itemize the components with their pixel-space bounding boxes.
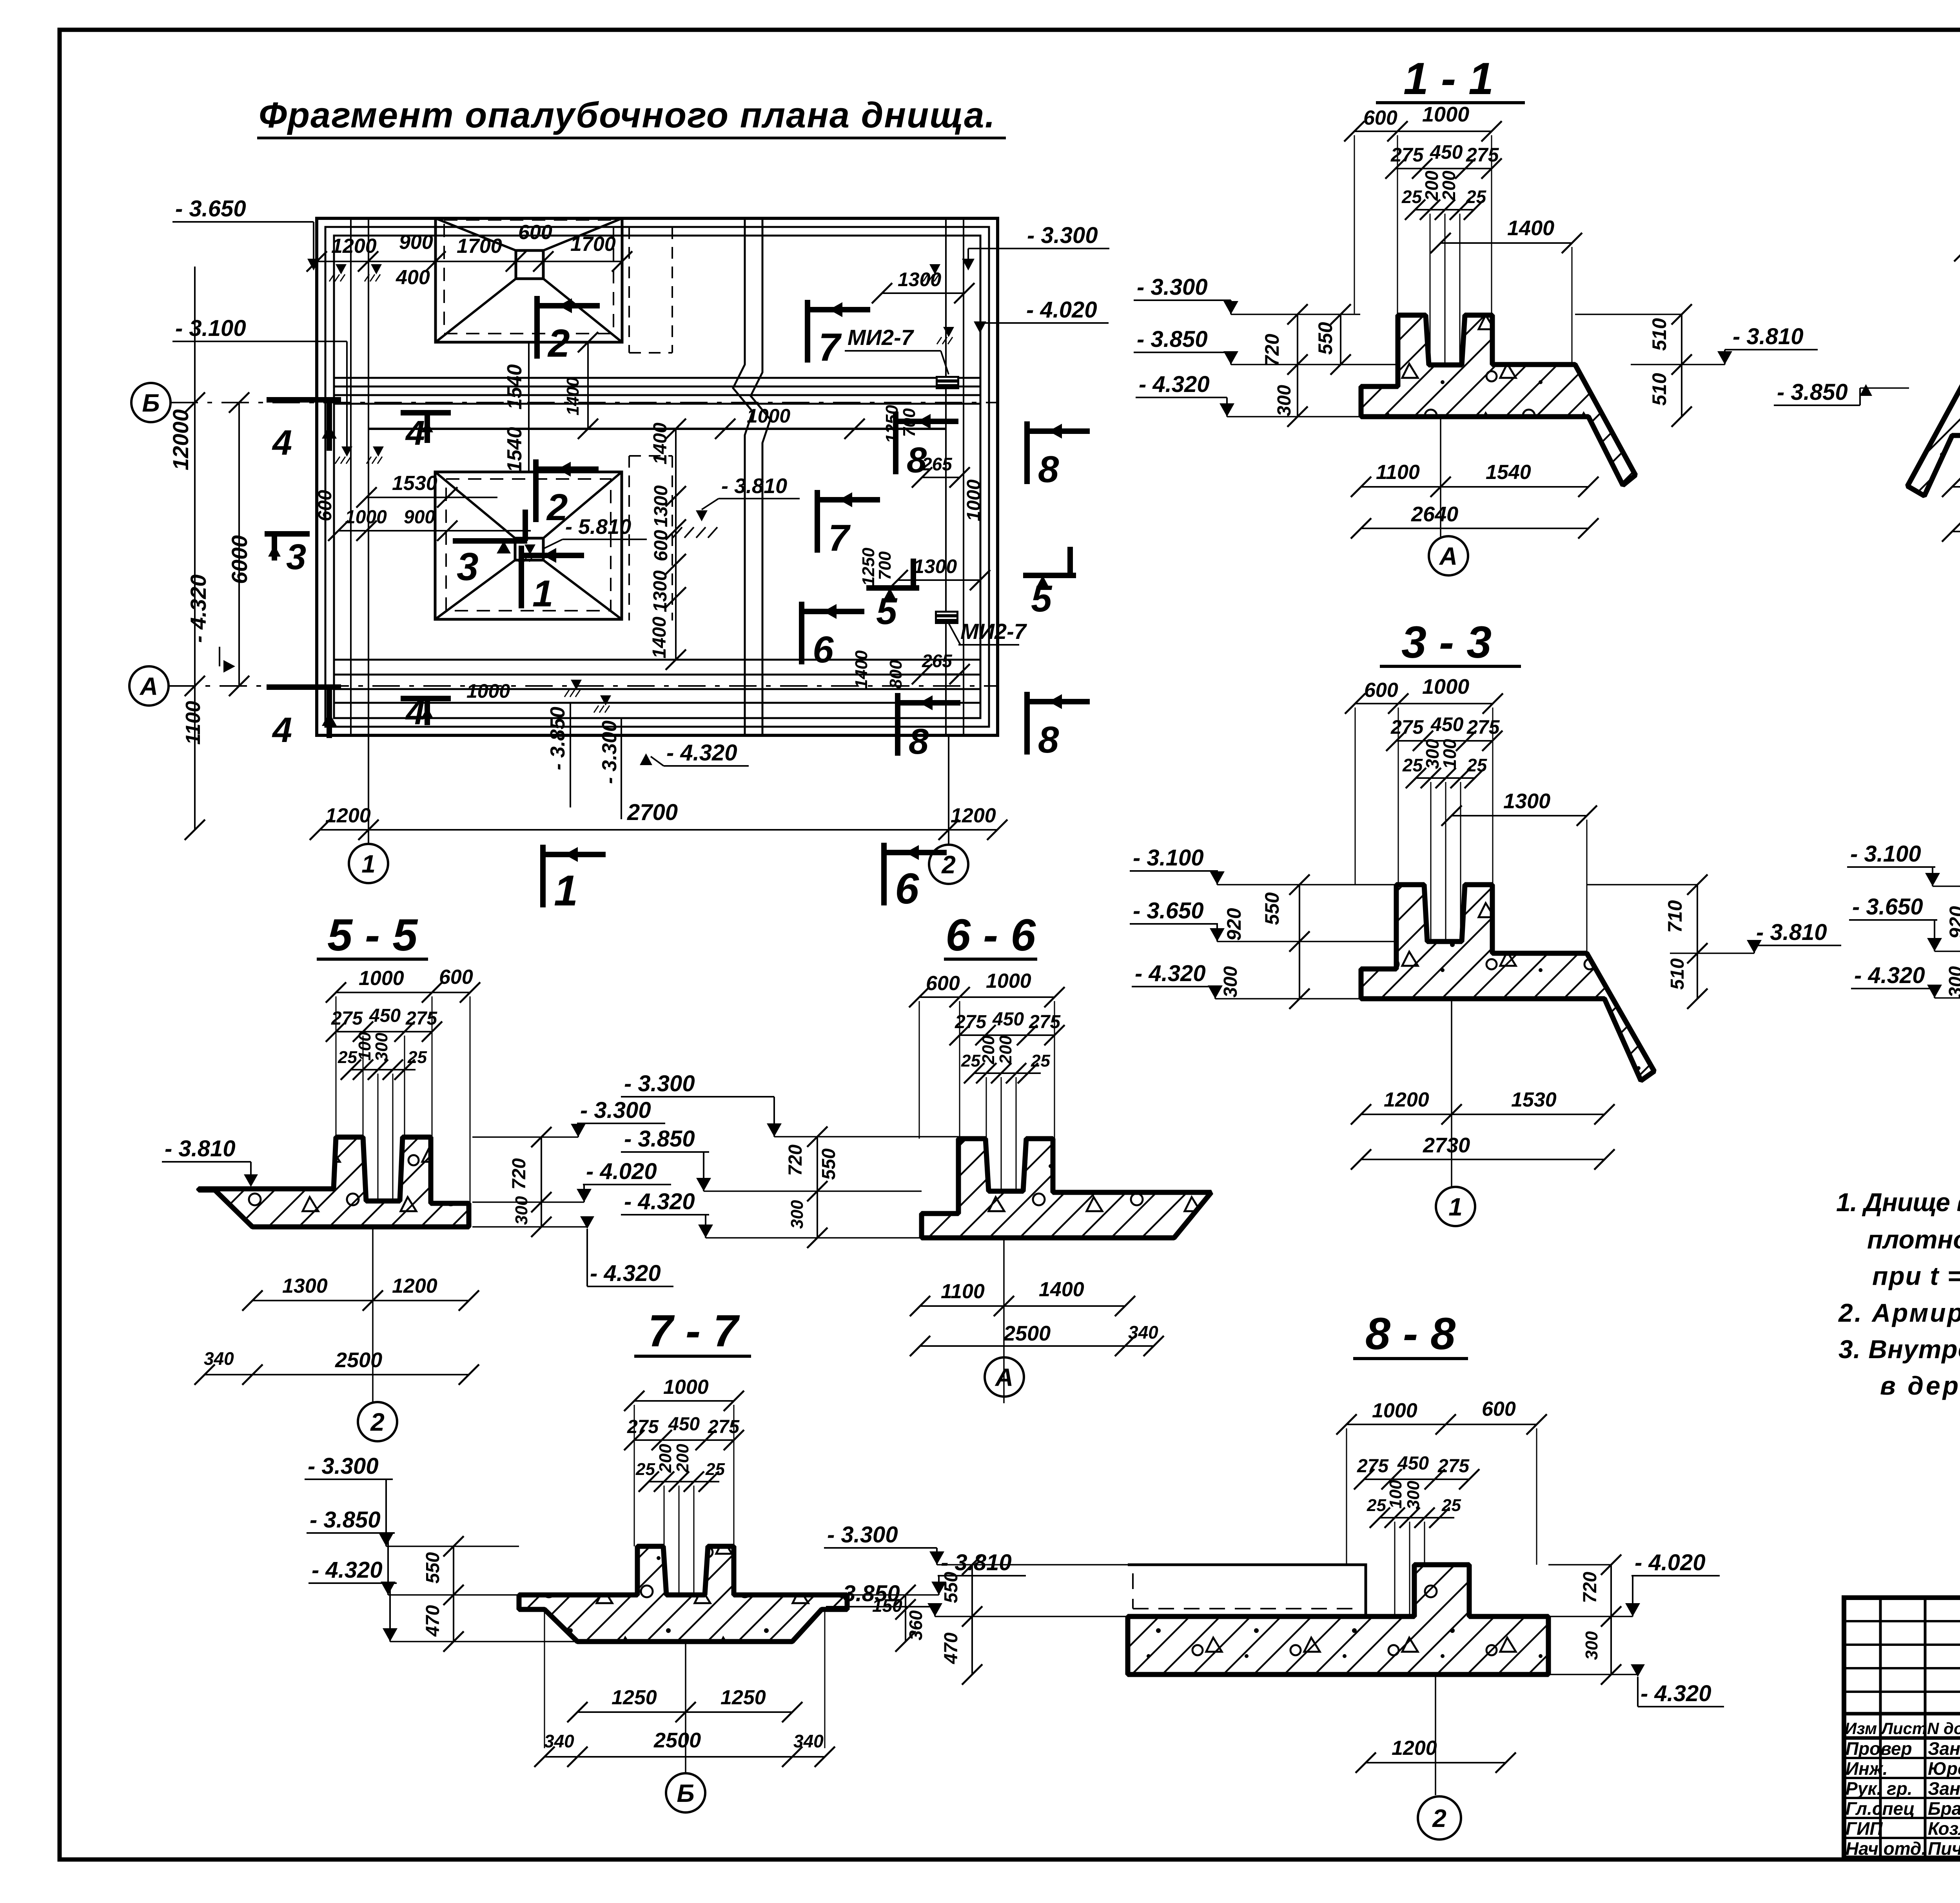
svg-text:700: 700 [875,551,895,580]
svg-text:450: 450 [1430,713,1464,735]
svg-text:920: 920 [1223,908,1245,941]
svg-text:Пичахчи: Пичахчи [1928,1838,1960,1859]
flags outside right [1024,421,1030,484]
svg-text:470: 470 [423,1605,443,1637]
svg-text:1000: 1000 [1422,103,1469,126]
2-2 bottom dims [1952,486,1960,488]
svg-text:25: 25 [1031,1051,1050,1070]
svg-text:400: 400 [396,266,430,289]
svg-text:275: 275 [405,1008,437,1029]
svg-text:550: 550 [423,1552,443,1584]
svg-text:- 3.850: - 3.850 [829,1581,900,1606]
svg-text:600: 600 [518,221,552,244]
svg-text:- 3.100: - 3.100 [1850,841,1921,867]
svg-text:А: А [995,1363,1013,1391]
section flags on plan [534,296,540,359]
plan inner wall lines [350,218,352,735]
svg-text:- 4.320: - 4.320 [666,740,737,766]
7-7 concrete body [519,1546,847,1642]
svg-text:Изм: Изм [1845,1719,1877,1738]
svg-text:- 3.850: - 3.850 [1137,327,1208,352]
svg-text:Гл.спец: Гл.спец [1846,1798,1915,1819]
svg-text:2700: 2700 [627,800,678,825]
svg-text:Рук. гр.: Рук. гр. [1846,1778,1913,1799]
svg-text:8: 8 [1038,719,1059,761]
1-1 extension lines [1354,135,1355,314]
axis circle Б [131,383,171,422]
6-6 bottom dims [920,1305,1125,1307]
svg-text:1000: 1000 [466,680,510,702]
svg-text:- 3.850: - 3.850 [546,707,569,770]
svg-text:3 - 3: 3 - 3 [1401,617,1492,668]
svg-text:800: 800 [886,660,906,689]
svg-text:550: 550 [818,1148,839,1180]
svg-text:- 3.650: - 3.650 [175,196,246,221]
svg-text:340: 340 [544,1731,574,1751]
svg-text:275: 275 [708,1417,740,1437]
svg-text:- 4.320: - 4.320 [1139,372,1210,397]
svg-text:1: 1 [554,867,578,915]
5-5 top dims [336,992,470,993]
svg-text:в деревянной опалубке.: в деревянной опалубке. [1880,1371,1960,1400]
svg-text:710: 710 [1664,900,1686,933]
svg-text:1300: 1300 [651,485,671,527]
title block [1844,1598,1960,1858]
plan break lines [733,218,753,735]
svg-text:920: 920 [1945,906,1960,939]
svg-text:5: 5 [1031,578,1053,620]
svg-text:100: 100 [355,1032,374,1061]
svg-text:340: 340 [204,1348,234,1369]
svg-text:8: 8 [909,722,929,762]
svg-text:1530: 1530 [1511,1088,1557,1111]
svg-text:1100: 1100 [182,701,205,745]
svg-text:450: 450 [992,1009,1024,1030]
svg-text:- 3.100: - 3.100 [175,316,246,341]
svg-text:510: 510 [1648,318,1670,351]
svg-text:25: 25 [1402,755,1423,775]
svg-text:600: 600 [651,530,671,561]
svg-text:1: 1 [1448,1193,1463,1221]
svg-text:900: 900 [399,231,433,254]
svg-text:1200: 1200 [1384,1088,1429,1111]
svg-text:2: 2 [547,321,570,365]
7-7 axis circle [666,1773,705,1812]
svg-text:2640: 2640 [1411,503,1458,526]
svg-text:N докумен.: N докумен. [1927,1719,1960,1738]
svg-text:12000: 12000 [168,409,193,470]
svg-text:Нач отд.: Нач отд. [1846,1838,1926,1859]
svg-text:1300: 1300 [650,570,671,612]
8-8 bottom dim [1366,1762,1506,1763]
svg-text:3: 3 [286,537,306,577]
svg-text:1400: 1400 [650,423,671,464]
svg-text:2500: 2500 [335,1348,382,1372]
svg-text:1000: 1000 [1372,1399,1417,1422]
svg-text:25: 25 [1466,755,1488,775]
svg-text:300: 300 [1945,966,1960,998]
7-7 bottom dims [577,1711,792,1713]
svg-text:1300: 1300 [913,555,957,577]
svg-text:А: А [1439,542,1457,570]
svg-text:7: 7 [818,325,842,369]
plan bottom band [334,659,980,661]
svg-text:600: 600 [439,966,473,989]
svg-text:5: 5 [876,590,898,632]
upper hopper pit [436,218,622,342]
dashed formwork rects right of hoppers [628,227,630,353]
svg-text:450: 450 [1430,141,1463,163]
8-8 concrete body [1128,1565,1548,1674]
svg-text:1: 1 [532,573,553,615]
svg-text:- 3.300: - 3.300 [580,1098,651,1123]
svg-text:200: 200 [673,1444,692,1473]
svg-text:550: 550 [1314,322,1336,355]
lower hopper pit [435,472,622,619]
svg-text:360: 360 [906,1610,926,1640]
svg-text:1000: 1000 [747,405,790,427]
flag 3 lower hopper [453,538,527,544]
svg-text:1. Днище выполнять из бетона: 1. Днище выполнять из бетона по прочност… [1836,1188,1960,1217]
svg-text:1400: 1400 [1507,216,1554,240]
svg-text:1100: 1100 [1376,461,1420,484]
svg-text:1540: 1540 [503,427,526,472]
mid 4 flags [401,410,451,415]
svg-text:1: 1 [361,850,376,878]
svg-text:1400: 1400 [563,377,583,415]
right vertical dim chain 1400 1300 600 1300 1400 [675,429,677,660]
svg-text:- 3.650: - 3.650 [1133,898,1204,923]
svg-text:- 3.850: - 3.850 [1777,379,1848,405]
svg-text:- 4.320: - 4.320 [1641,1681,1711,1706]
svg-text:1100: 1100 [941,1280,985,1303]
svg-text:450: 450 [369,1005,401,1026]
svg-text:200: 200 [996,1035,1015,1065]
svg-text:8: 8 [907,440,927,480]
svg-text:25: 25 [1466,187,1487,207]
svg-text:6: 6 [895,865,919,913]
svg-text:- 3.100: - 3.100 [1133,845,1204,871]
8-8 formwork outline left [1128,1565,1366,1616]
svg-text:7 - 7: 7 - 7 [648,1306,740,1356]
svg-text:Юровский: Юровский [1928,1758,1960,1779]
svg-text:- 3.300: - 3.300 [1027,223,1098,248]
svg-text:Браславский: Браславский [1928,1798,1960,1819]
svg-text:2. Армирование днища см. лис: 2. Армирование днища см. листы кж-18 ÷ к… [1838,1298,1960,1327]
svg-text:Лист: Лист [1880,1719,1927,1738]
svg-text:720: 720 [1580,1572,1601,1603]
svg-text:8: 8 [1038,448,1059,490]
svg-text:- 4.020: - 4.020 [1026,297,1097,323]
svg-text:1300: 1300 [1503,789,1550,813]
svg-text:600: 600 [926,972,960,995]
svg-text:- 3.850: - 3.850 [624,1126,695,1152]
svg-text:1400: 1400 [852,650,871,689]
svg-text:1250: 1250 [612,1686,657,1709]
svg-text:340: 340 [793,1731,824,1751]
svg-text:275: 275 [627,1417,659,1437]
svg-text:1200: 1200 [1392,1737,1437,1760]
axis circle 2 [929,845,968,884]
svg-text:2730: 2730 [1423,1134,1470,1157]
svg-text:6 - 6: 6 - 6 [946,910,1036,960]
8-8 axis circle [1418,1796,1461,1840]
svg-text:4: 4 [405,414,425,452]
upper-cell corner flag marks [336,264,347,274]
plan top dim row 1200 900 1700 600 1700 [317,261,622,262]
6-6 axis circle [985,1357,1024,1397]
1-1 concrete body [1361,315,1635,485]
svg-text:300: 300 [1404,1480,1423,1509]
svg-text:300: 300 [788,1200,807,1229]
MI2-7 embedded plates [936,376,959,389]
1-1 axis circle [1429,536,1468,575]
svg-text:2: 2 [370,1408,385,1436]
svg-text:Инж.: Инж. [1846,1758,1888,1779]
svg-text:1540: 1540 [1486,461,1531,484]
axis circle 1 [349,844,388,883]
svg-text:340: 340 [1128,1322,1158,1342]
2-2 concrete body [1907,318,1960,496]
8-8 top dims [1347,1424,1537,1425]
svg-text:1000: 1000 [964,479,984,521]
svg-text:1000: 1000 [1422,675,1469,698]
svg-text:720: 720 [509,1158,530,1190]
svg-text:1000: 1000 [986,970,1031,992]
svg-text:3. Внутреннюю поверхность па: 3. Внутреннюю поверхность паза бетониров… [1838,1335,1960,1364]
svg-text:ГИП: ГИП [1846,1818,1883,1839]
5-5 bottom dims [252,1300,469,1301]
svg-text:1200: 1200 [331,235,377,258]
svg-text:- 4.320: - 4.320 [186,575,211,643]
svg-text:Зантберг: Зантберг [1928,1738,1960,1759]
svg-text:300: 300 [1274,385,1295,416]
svg-text:1000: 1000 [663,1376,709,1399]
svg-text:3: 3 [457,545,479,589]
svg-text:600: 600 [1363,107,1397,129]
svg-text:1000: 1000 [345,507,387,528]
svg-text:МИ2-7: МИ2-7 [848,325,915,350]
3-3 axis circle [1436,1187,1475,1226]
flags 7 5 6 8 in right cell [805,300,810,363]
svg-text:275: 275 [1390,716,1424,738]
svg-text:25: 25 [635,1460,655,1479]
svg-text:275: 275 [1390,144,1424,166]
svg-text:600: 600 [1482,1398,1516,1420]
1-1 top dims [1354,131,1492,132]
svg-text:300: 300 [1582,1631,1601,1660]
svg-text:1700: 1700 [457,235,502,258]
svg-text:550: 550 [1261,892,1283,925]
svg-text:Фрагмент опалубочного плана: Фрагмент опалубочного плана днища. [259,95,996,135]
svg-text:2: 2 [546,486,568,528]
svg-text:- 3.300: - 3.300 [308,1453,379,1479]
svg-text:- 3.300: - 3.300 [598,720,621,784]
6-6 top dims [919,996,1054,998]
svg-text:510: 510 [1648,373,1670,406]
bottom section flags 1 and 6 [540,845,546,907]
svg-text:450: 450 [668,1414,700,1435]
plan left vertical dims 12000 6000 1100 [194,267,196,830]
svg-text:1400: 1400 [649,617,670,659]
svg-text:Зантберг: Зантберг [1928,1778,1960,1799]
svg-text:275: 275 [1029,1012,1061,1032]
left edge flags [267,397,341,403]
svg-text:275: 275 [1437,1456,1470,1477]
svg-text:Козловская: Козловская [1928,1818,1960,1839]
svg-text:275: 275 [1466,144,1499,166]
plan middle band between cells [334,377,980,379]
svg-text:510: 510 [1667,958,1688,990]
plan outer walls [317,218,998,735]
svg-text:- 4.320: - 4.320 [624,1189,695,1214]
svg-text:25: 25 [1441,1496,1461,1515]
svg-text:2500: 2500 [1003,1322,1051,1345]
svg-text:600: 600 [1364,679,1398,702]
svg-text:7: 7 [828,517,851,559]
svg-text:6: 6 [813,629,834,671]
svg-text:- 3.850: - 3.850 [310,1507,381,1533]
svg-text:- 3.810: - 3.810 [1733,324,1804,349]
svg-text:4: 4 [405,693,425,732]
svg-text:- 4.020: - 4.020 [586,1159,657,1184]
svg-text:Б: Б [677,1779,694,1807]
svg-text:300: 300 [1220,966,1241,998]
svg-text:1530: 1530 [392,472,437,495]
svg-text:плотности „ В- 4 " по морозо: плотности „ В- 4 " по морозостойкости : … [1867,1225,1960,1254]
svg-text:25: 25 [1401,187,1423,207]
svg-text:- 3.810: - 3.810 [165,1136,236,1161]
svg-text:- 3.300: - 3.300 [624,1071,695,1096]
svg-text:275: 275 [1357,1456,1389,1477]
7-7 top dims [634,1400,734,1402]
svg-text:А: А [139,672,158,700]
svg-text:1200: 1200 [951,804,996,827]
5-5 axis circle [358,1402,397,1441]
svg-text:при t =- 30°„ Мрз - 150. ": при t =- 30°„ Мрз - 150. " [1872,1261,1960,1290]
svg-text:- 3.810: - 3.810 [721,474,787,498]
svg-text:- 4.020: - 4.020 [1635,1550,1706,1575]
svg-text:4: 4 [272,423,292,463]
svg-text:1200: 1200 [392,1275,437,1297]
svg-text:200: 200 [1439,171,1459,201]
5-5 concrete body [199,1137,469,1227]
svg-text:1700: 1700 [570,233,616,256]
svg-text:- 4.320: - 4.320 [1135,961,1206,986]
svg-text:550: 550 [941,1572,962,1603]
axis circle А [129,666,169,706]
svg-text:8 - 8: 8 - 8 [1365,1309,1455,1359]
svg-text:1540: 1540 [503,364,526,410]
svg-text:- 3.810: - 3.810 [1756,920,1827,945]
svg-text:470: 470 [941,1633,962,1664]
svg-text:200: 200 [979,1035,998,1065]
svg-text:450: 450 [1397,1453,1429,1474]
svg-text:Б: Б [142,389,160,417]
svg-text:1400: 1400 [1039,1278,1084,1301]
svg-text:Провер: Провер [1846,1738,1912,1759]
svg-text:25: 25 [961,1051,980,1070]
svg-text:МИ2-7: МИ2-7 [960,619,1027,644]
3-3 bottom dims [1361,1114,1604,1115]
6-6 concrete body [922,1139,1211,1238]
svg-text:1250: 1250 [720,1686,766,1709]
svg-text:100: 100 [1439,739,1460,769]
svg-text:900: 900 [404,507,435,528]
svg-text:- 4.320: - 4.320 [1854,963,1925,988]
svg-text:4: 4 [272,711,292,750]
bottom leaders -3.850 -3.300 -4.320 [570,703,571,807]
svg-text:275: 275 [1466,716,1500,738]
svg-text:25: 25 [1367,1496,1386,1515]
3-3 concrete body [1361,885,1654,1081]
svg-text:600: 600 [315,490,336,521]
svg-text:720: 720 [1261,334,1283,366]
3-3 top dims [1355,703,1493,704]
svg-text:300: 300 [372,1032,391,1061]
svg-text:1200: 1200 [325,804,371,827]
svg-text:- 3.300: - 3.300 [827,1522,898,1547]
svg-text:2: 2 [1432,1804,1446,1832]
1-1 bottom dims [1361,486,1588,488]
svg-text:300: 300 [512,1196,531,1225]
plan bottom dim row 1200 2700 1200 [320,829,998,831]
svg-text:265: 265 [922,651,953,671]
svg-text:1 - 1: 1 - 1 [1403,54,1494,104]
svg-text:- 5.810: - 5.810 [565,515,631,539]
svg-text:- 4.320: - 4.320 [590,1261,661,1286]
svg-text:1300: 1300 [282,1275,328,1297]
1-1 vertical dims [1297,314,1298,417]
svg-text:- 3.650: - 3.650 [1852,894,1923,920]
svg-text:- 4.320: - 4.320 [312,1557,383,1583]
svg-text:200: 200 [656,1444,675,1473]
plan interior dims lower hopper [367,497,497,498]
svg-text:2500: 2500 [653,1729,701,1752]
svg-text:25: 25 [338,1048,357,1067]
svg-text:100: 100 [1386,1480,1405,1509]
svg-text:- 3.810: - 3.810 [941,1550,1012,1575]
svg-text:25: 25 [407,1048,427,1067]
svg-text:- 3.300: - 3.300 [1137,274,1208,300]
svg-text:25: 25 [705,1460,725,1479]
svg-text:720: 720 [785,1145,806,1176]
svg-text:1000: 1000 [359,967,404,990]
axis lines [171,402,998,403]
svg-text:5 - 5: 5 - 5 [327,910,418,960]
